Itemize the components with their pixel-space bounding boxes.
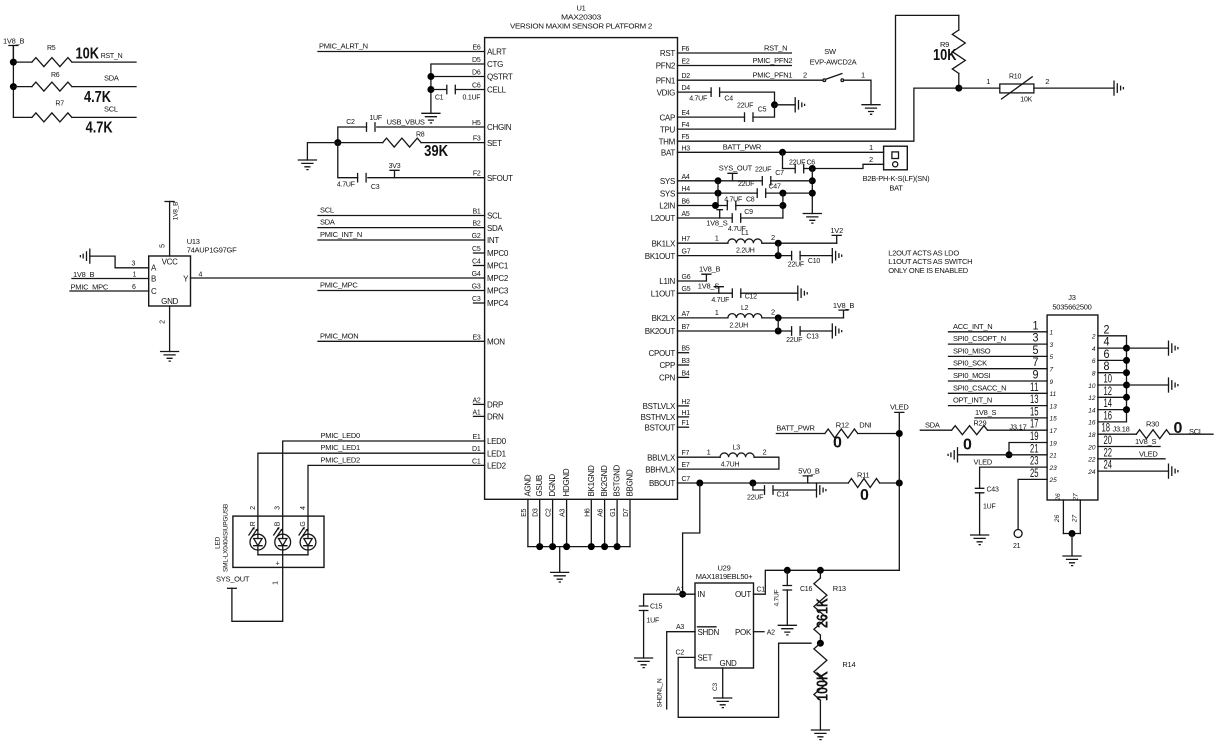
svg-text:6: 6 bbox=[132, 284, 136, 291]
junction bbox=[1069, 530, 1076, 537]
wire J3 pin 21 to ground bbox=[958, 454, 1047, 456]
svg-text:D3: D3 bbox=[533, 508, 540, 517]
wire U29 OUT pin C1 to VLED rail bbox=[754, 570, 900, 594]
svg-text:ACC_INT_N: ACC_INT_N bbox=[953, 322, 992, 331]
junction bbox=[1123, 406, 1130, 413]
svg-text:J3.17: J3.17 bbox=[1009, 423, 1026, 432]
svg-text:PMIC_PFN2: PMIC_PFN2 bbox=[753, 56, 793, 65]
svg-text:SYS_OUT: SYS_OUT bbox=[719, 164, 753, 173]
wire BK2 tie bbox=[777, 318, 779, 331]
svg-text:D2: D2 bbox=[682, 73, 691, 80]
svg-text:EVP-AWCD2A: EVP-AWCD2A bbox=[810, 58, 857, 67]
capacitor C12 4.7UF on L1OUT bbox=[732, 289, 741, 297]
svg-text:SYS_OUT: SYS_OUT bbox=[216, 575, 250, 584]
power flag SYS_OUT bbox=[228, 587, 237, 589]
svg-text:19: 19 bbox=[1050, 440, 1058, 447]
svg-text:BK1OUT: BK1OUT bbox=[645, 252, 676, 261]
wire J3 pin 10 to bus bbox=[1098, 384, 1127, 386]
svg-text:GSUB: GSUB bbox=[535, 475, 544, 496]
svg-text:VERSION MAXIM SENSOR PLATFORM: VERSION MAXIM SENSOR PLATFORM 2 bbox=[510, 22, 652, 31]
svg-text:LED: LED bbox=[215, 536, 222, 549]
wire U29 SET pin C2 feedback bbox=[678, 643, 811, 717]
ground bbox=[817, 483, 826, 497]
svg-text:L2OUT ACTS AS LDO: L2OUT ACTS AS LDO bbox=[888, 249, 959, 258]
svg-text:23: 23 bbox=[1049, 465, 1058, 472]
svg-text:C1: C1 bbox=[435, 95, 444, 102]
svg-text:RST_N: RST_N bbox=[101, 53, 123, 60]
ground bbox=[811, 730, 829, 740]
svg-text:0: 0 bbox=[1174, 420, 1183, 437]
svg-text:G3: G3 bbox=[472, 284, 481, 291]
svg-text:C8: C8 bbox=[746, 196, 755, 203]
thermistor R10 10K bbox=[959, 87, 1000, 89]
svg-text:BAT: BAT bbox=[889, 183, 903, 192]
svg-text:DRN: DRN bbox=[487, 413, 504, 422]
svg-text:3: 3 bbox=[132, 260, 136, 267]
svg-text:24: 24 bbox=[1087, 469, 1096, 476]
svg-text:BK2OUT: BK2OUT bbox=[645, 327, 676, 336]
svg-text:10: 10 bbox=[1088, 383, 1096, 390]
ground bbox=[80, 249, 89, 263]
svg-text:SCL: SCL bbox=[104, 105, 118, 114]
svg-text:20: 20 bbox=[1087, 444, 1096, 451]
svg-text:22: 22 bbox=[1087, 457, 1096, 464]
wire U1 TPU to R9 top bbox=[678, 15, 959, 129]
svg-text:PMIC_PFN1: PMIC_PFN1 bbox=[753, 71, 793, 80]
svg-text:A7: A7 bbox=[682, 311, 690, 318]
svg-text:4.7UF: 4.7UF bbox=[711, 297, 729, 304]
ground bbox=[1169, 378, 1178, 392]
svg-text:1: 1 bbox=[715, 308, 719, 317]
svg-text:F5: F5 bbox=[682, 134, 690, 141]
svg-text:1V2: 1V2 bbox=[830, 226, 843, 235]
svg-text:B1: B1 bbox=[472, 209, 480, 216]
capacitor C10 22UF on BK1OUT bbox=[792, 251, 801, 259]
U1 stub pin BSTLVLX bbox=[678, 405, 689, 407]
svg-text:MPC2: MPC2 bbox=[487, 274, 509, 283]
svg-text:PMIC_ALRT_N: PMIC_ALRT_N bbox=[319, 42, 368, 51]
svg-text:22UF: 22UF bbox=[737, 103, 753, 110]
svg-text:L2OUT: L2OUT bbox=[651, 214, 676, 223]
ground bbox=[1114, 81, 1123, 95]
wire U1 THM to R9/R10 node bbox=[678, 88, 959, 141]
svg-text:4: 4 bbox=[199, 272, 203, 279]
svg-text:SPI0_CSOPT_N: SPI0_CSOPT_N bbox=[953, 334, 1006, 343]
svg-text:10K: 10K bbox=[1020, 97, 1032, 104]
svg-text:SPI0_SCK: SPI0_SCK bbox=[953, 359, 987, 368]
svg-text:C2: C2 bbox=[546, 508, 553, 517]
junction bbox=[779, 190, 786, 197]
svg-text:H6: H6 bbox=[584, 508, 591, 517]
svg-text:IN: IN bbox=[698, 590, 706, 599]
svg-text:J3: J3 bbox=[1068, 293, 1076, 302]
svg-text:B7: B7 bbox=[682, 324, 690, 331]
svg-text:C2: C2 bbox=[346, 119, 355, 126]
svg-text:1: 1 bbox=[986, 77, 990, 86]
resistor R8 39K on SET bbox=[338, 142, 383, 144]
svg-text:2: 2 bbox=[869, 155, 873, 164]
connector J2 B2B-PH-K-S battery bbox=[884, 146, 908, 170]
svg-text:ALRT: ALRT bbox=[487, 48, 507, 57]
svg-text:B6: B6 bbox=[682, 199, 690, 206]
svg-text:5V0_B: 5V0_B bbox=[798, 467, 820, 476]
svg-text:POK: POK bbox=[735, 628, 752, 637]
svg-text:D1: D1 bbox=[472, 446, 481, 453]
svg-text:MON: MON bbox=[487, 338, 505, 347]
capacitor C15 1UF on U29 IN bbox=[643, 594, 645, 606]
wire 1V8_B rail bbox=[12, 46, 14, 118]
wire J3 pin 25 to testpoint 21 bbox=[1018, 479, 1047, 529]
svg-text:C7: C7 bbox=[682, 476, 691, 483]
junction bbox=[896, 430, 903, 437]
power flag 3V3 on SFOUT bbox=[390, 170, 399, 177]
junction bbox=[779, 149, 786, 156]
svg-text:BSTGND: BSTGND bbox=[613, 464, 622, 496]
svg-text:2: 2 bbox=[1091, 334, 1096, 341]
wire net PMIC_MPC to U1 MPC3 bbox=[318, 290, 485, 292]
wire U29 IN pin A1 bbox=[644, 593, 695, 595]
svg-text:TPU: TPU bbox=[660, 125, 676, 134]
svg-text:A6: A6 bbox=[598, 508, 605, 516]
power flag 1V8_B on L1IN bbox=[678, 280, 707, 282]
svg-text:C1: C1 bbox=[757, 587, 766, 594]
svg-text:C4: C4 bbox=[724, 96, 733, 103]
svg-text:A4: A4 bbox=[682, 174, 690, 181]
svg-text:MAX1819EBL50+: MAX1819EBL50+ bbox=[696, 572, 753, 581]
svg-text:CAP: CAP bbox=[659, 113, 675, 122]
svg-text:VDIG: VDIG bbox=[657, 88, 675, 97]
junction bbox=[549, 543, 556, 550]
U1 stub pin DRP bbox=[474, 403, 485, 405]
svg-text:CHGIN: CHGIN bbox=[487, 123, 512, 132]
svg-text:PFN2: PFN2 bbox=[656, 62, 676, 71]
svg-text:22UF: 22UF bbox=[786, 337, 802, 344]
wire net PMIC_MPC to U13 pin C bbox=[70, 290, 149, 292]
svg-text:G1: G1 bbox=[610, 508, 617, 517]
svg-text:1V8_S: 1V8_S bbox=[698, 282, 720, 291]
svg-text:PMIC_LED0: PMIC_LED0 bbox=[321, 431, 361, 440]
svg-text:25: 25 bbox=[1049, 477, 1058, 484]
svg-text:BSTOUT: BSTOUT bbox=[644, 423, 675, 432]
svg-text:A1: A1 bbox=[472, 409, 480, 416]
junction bbox=[334, 139, 341, 146]
svg-text:1: 1 bbox=[715, 234, 719, 243]
resistor R14 100K bbox=[814, 643, 827, 700]
svg-text:2: 2 bbox=[771, 308, 775, 317]
power flag 5V0_B on BBOUT bbox=[803, 476, 812, 483]
svg-text:C1: C1 bbox=[472, 458, 481, 465]
svg-text:PMIC_MPC: PMIC_MPC bbox=[320, 281, 358, 290]
svg-text:R13: R13 bbox=[833, 584, 846, 593]
wire U1 QSTRT bbox=[431, 76, 485, 78]
capacitor C6 22UF on BATT_PWR bbox=[782, 152, 784, 168]
svg-text:1V8_S: 1V8_S bbox=[975, 408, 997, 417]
resistor R13 261K bbox=[819, 570, 821, 578]
svg-text:R30: R30 bbox=[1146, 420, 1159, 429]
junction bbox=[601, 543, 608, 550]
junction bbox=[696, 480, 703, 487]
U1 stub pin CPN bbox=[678, 376, 689, 378]
svg-text:H4: H4 bbox=[682, 186, 691, 193]
wire net SPI0_MISO to J3 pin 5 bbox=[949, 355, 1048, 357]
svg-text:2.2UH: 2.2UH bbox=[736, 248, 755, 255]
U1 stub pin MPC1 bbox=[474, 265, 485, 267]
wire U1 L1OUT row bbox=[678, 292, 733, 294]
svg-text:A5: A5 bbox=[682, 211, 690, 218]
svg-text:22UF: 22UF bbox=[755, 167, 771, 174]
node SCL bbox=[72, 116, 136, 118]
svg-text:4.7UF: 4.7UF bbox=[689, 96, 707, 103]
wire net PMIC_LED2 to U1 LED2 bbox=[308, 465, 485, 534]
svg-text:14: 14 bbox=[1088, 407, 1096, 414]
svg-text:C4: C4 bbox=[472, 259, 481, 266]
connector J3 5035662500 bbox=[1047, 315, 1098, 500]
svg-text:R12: R12 bbox=[836, 421, 849, 430]
svg-text:C47: C47 bbox=[769, 184, 781, 191]
svg-text:4.7K: 4.7K bbox=[84, 89, 112, 106]
svg-text:PMIC_LED2: PMIC_LED2 bbox=[321, 455, 361, 464]
svg-text:C13: C13 bbox=[806, 334, 818, 341]
junction bbox=[679, 591, 686, 598]
ground bbox=[714, 698, 732, 708]
svg-text:SYS: SYS bbox=[660, 177, 675, 186]
svg-text:21: 21 bbox=[1049, 453, 1058, 460]
svg-text:13: 13 bbox=[1050, 403, 1058, 410]
junction bbox=[563, 543, 570, 550]
svg-text:C12: C12 bbox=[745, 294, 757, 301]
wire J3 pin 4 to bus bbox=[1098, 347, 1127, 349]
svg-text:0: 0 bbox=[963, 437, 972, 454]
junction bbox=[817, 640, 824, 647]
wire BBOUT to U29 IN bbox=[683, 483, 700, 594]
svg-text:21: 21 bbox=[1013, 543, 1021, 550]
svg-text:BAT: BAT bbox=[661, 149, 675, 158]
svg-text:BSTLVLX: BSTLVLX bbox=[643, 402, 676, 411]
svg-text:C5: C5 bbox=[758, 107, 767, 114]
svg-text:G4: G4 bbox=[472, 271, 481, 278]
wire net SDA to U1 SDA bbox=[318, 227, 485, 229]
junction bbox=[775, 328, 782, 335]
svg-text:A1: A1 bbox=[676, 587, 684, 594]
svg-text:3: 3 bbox=[1050, 342, 1054, 349]
wire net OPT_INT_N to J3 pin 13 bbox=[949, 405, 1048, 407]
svg-text:4: 4 bbox=[300, 506, 307, 510]
svg-text:2: 2 bbox=[763, 448, 767, 457]
ground bbox=[778, 625, 796, 635]
svg-text:B: B bbox=[151, 275, 156, 284]
svg-text:1V8_B: 1V8_B bbox=[3, 37, 25, 46]
svg-text:SPI0_CSACC_N: SPI0_CSACC_N bbox=[953, 383, 1006, 392]
svg-text:8: 8 bbox=[1092, 371, 1096, 378]
svg-text:G6: G6 bbox=[682, 274, 691, 281]
svg-text:CPN: CPN bbox=[659, 374, 676, 383]
inductor L2 2.2UH on BK2LX bbox=[678, 317, 728, 319]
svg-text:7: 7 bbox=[1050, 367, 1054, 374]
junction bbox=[536, 543, 543, 550]
wire connector J2 pin 2 bbox=[812, 164, 883, 168]
svg-text:1V8_B: 1V8_B bbox=[833, 301, 855, 310]
svg-text:GND: GND bbox=[720, 659, 737, 668]
wire net VLED from J3 pin 22 bbox=[1098, 458, 1165, 460]
svg-text:F1: F1 bbox=[682, 420, 690, 427]
power flag SYS_OUT on SYS bbox=[728, 173, 737, 181]
svg-text:2: 2 bbox=[1045, 77, 1049, 86]
ground bbox=[971, 535, 989, 545]
svg-text:BBOUT: BBOUT bbox=[649, 479, 675, 488]
U1 stub pin MPC4 bbox=[474, 302, 485, 304]
wire U13 pin A bbox=[90, 256, 149, 268]
svg-text:D4: D4 bbox=[682, 85, 691, 92]
svg-text:MPC0: MPC0 bbox=[487, 249, 509, 258]
svg-text:G: G bbox=[300, 521, 307, 526]
junction bbox=[1123, 369, 1130, 376]
svg-text:2: 2 bbox=[250, 506, 257, 510]
capacitor C9 4.7UF on L2OUT bbox=[732, 214, 741, 222]
svg-text:BATT_PWR: BATT_PWR bbox=[776, 424, 815, 433]
svg-text:R6: R6 bbox=[51, 72, 60, 79]
svg-text:J3.18: J3.18 bbox=[1113, 425, 1130, 434]
resistor R6 bbox=[13, 86, 32, 88]
svg-text:THM: THM bbox=[659, 137, 676, 146]
svg-text:H5: H5 bbox=[472, 120, 481, 127]
IC U13 74AUP1G97GF bbox=[149, 256, 191, 306]
svg-text:SYS: SYS bbox=[660, 189, 675, 198]
svg-text:L2: L2 bbox=[741, 305, 749, 312]
U1 stub pin DRN bbox=[474, 415, 485, 417]
svg-text:SW: SW bbox=[824, 47, 837, 56]
svg-text:3: 3 bbox=[275, 506, 282, 510]
svg-text:LED2: LED2 bbox=[487, 462, 507, 471]
capacitor C47 22UF on SYS bbox=[757, 189, 766, 197]
svg-text:SFOUT: SFOUT bbox=[487, 174, 513, 183]
svg-text:A2: A2 bbox=[472, 397, 480, 404]
svg-text:100K: 100K bbox=[815, 670, 832, 701]
svg-text:1: 1 bbox=[1050, 330, 1054, 337]
svg-text:4.7K: 4.7K bbox=[86, 120, 114, 137]
svg-text:SDA: SDA bbox=[104, 74, 119, 83]
svg-text:R5: R5 bbox=[47, 45, 56, 52]
svg-text:DGND: DGND bbox=[548, 474, 557, 497]
ground bbox=[775, 104, 796, 106]
svg-text:F3: F3 bbox=[473, 136, 481, 143]
svg-text:SCL: SCL bbox=[320, 206, 334, 215]
svg-text:MAX20303: MAX20303 bbox=[561, 13, 601, 22]
svg-text:RST_N: RST_N bbox=[764, 44, 787, 53]
capacitor C3 4.7UF on SFOUT bbox=[368, 177, 485, 179]
svg-text:SCL: SCL bbox=[1189, 427, 1203, 436]
wire net RST_N from U1 RST bbox=[678, 52, 792, 54]
capacitor C7 22UF on SYS bbox=[762, 177, 771, 185]
svg-text:R14: R14 bbox=[842, 660, 855, 669]
svg-text:22UF: 22UF bbox=[789, 160, 805, 167]
IC U1 MAX20303 bbox=[485, 38, 678, 500]
svg-text:1: 1 bbox=[869, 143, 873, 152]
junction bbox=[1123, 345, 1130, 352]
svg-text:26: 26 bbox=[1055, 493, 1062, 502]
junction bbox=[809, 165, 816, 172]
junction bbox=[779, 202, 786, 209]
capacitor C16 4.7UF bbox=[786, 570, 788, 585]
svg-text:CPOUT: CPOUT bbox=[648, 349, 675, 358]
svg-text:D7: D7 bbox=[623, 508, 630, 517]
svg-text:C10: C10 bbox=[808, 258, 820, 265]
svg-text:HDGND: HDGND bbox=[562, 468, 571, 496]
svg-text:22UF: 22UF bbox=[788, 262, 804, 269]
svg-text:5: 5 bbox=[160, 244, 167, 248]
svg-text:4: 4 bbox=[1092, 346, 1096, 353]
svg-text:10K: 10K bbox=[76, 46, 100, 63]
ground bbox=[1169, 341, 1178, 355]
svg-text:R7: R7 bbox=[55, 101, 64, 108]
svg-text:F6: F6 bbox=[682, 46, 690, 53]
svg-text:BBHVLX: BBHVLX bbox=[645, 465, 676, 474]
junction bbox=[715, 190, 722, 197]
svg-text:BATT_PWR: BATT_PWR bbox=[723, 143, 762, 152]
svg-text:VLED: VLED bbox=[890, 403, 909, 412]
wire J3 pin 24 to ground bbox=[1098, 470, 1169, 472]
svg-text:B3: B3 bbox=[682, 358, 690, 365]
svg-text:CPP: CPP bbox=[659, 361, 675, 370]
svg-text:PFN1: PFN1 bbox=[656, 76, 676, 85]
svg-text:BSTHVLX: BSTHVLX bbox=[641, 413, 676, 422]
svg-text:5: 5 bbox=[1050, 354, 1054, 361]
wire net PMIC_MON to U1 MON bbox=[318, 340, 485, 342]
svg-text:BBLVLX: BBLVLX bbox=[647, 453, 676, 462]
svg-text:A3: A3 bbox=[560, 508, 567, 516]
capacitor C1 0.1UF on CELL bbox=[431, 89, 447, 91]
wire C8/C9 tie bbox=[782, 193, 784, 218]
resistor R5 bbox=[13, 61, 32, 63]
svg-text:261K: 261K bbox=[815, 597, 832, 628]
svg-text:4.7UH: 4.7UH bbox=[721, 462, 740, 469]
wire net SDA to R29 bbox=[920, 429, 951, 431]
capacitor C5 22UF on CAP bbox=[678, 116, 745, 118]
wire net PMIC_ALRT_N to U1 ALRT bbox=[318, 51, 485, 53]
power flag 1V8_B bbox=[839, 310, 848, 318]
capacitor C13 22UF on BK2OUT bbox=[792, 327, 801, 335]
svg-text:C3: C3 bbox=[712, 682, 719, 690]
svg-text:15: 15 bbox=[1050, 416, 1058, 423]
junction bbox=[809, 190, 816, 197]
svg-text:MPC4: MPC4 bbox=[487, 299, 509, 308]
svg-text:C43: C43 bbox=[987, 487, 999, 494]
capacitor C43 1UF bbox=[975, 488, 983, 493]
LED D1 SML-LX0404SIUPGUSB (RGB LED) bbox=[233, 516, 324, 567]
power flag 1V8_S on L1OUT bbox=[714, 287, 723, 294]
ground bbox=[422, 113, 440, 123]
junction bbox=[712, 202, 719, 209]
resistor R9 10K bbox=[958, 15, 960, 30]
junction bbox=[775, 252, 782, 259]
svg-text:G2: G2 bbox=[472, 233, 481, 240]
svg-text:E6: E6 bbox=[472, 45, 480, 52]
wire U29 SHDN pin A3 net SHDNL_N bbox=[667, 632, 695, 709]
svg-text:1V8_S: 1V8_S bbox=[706, 219, 728, 228]
svg-text:E4: E4 bbox=[682, 110, 690, 117]
svg-text:D6: D6 bbox=[472, 70, 481, 77]
svg-text:26: 26 bbox=[1054, 515, 1061, 524]
ground bbox=[862, 105, 880, 115]
IC U29 MAX1819EBL50+ bbox=[695, 583, 754, 668]
wire net PMIC_INT_N to U1 INT bbox=[318, 239, 485, 241]
svg-text:U1: U1 bbox=[576, 4, 585, 13]
ground bbox=[832, 249, 841, 263]
wire U1 BBOUT row bbox=[678, 482, 849, 484]
wire net BATT_PWR from U1 BAT to connector J2 pin 1 bbox=[678, 151, 884, 153]
svg-text:0.1UF: 0.1UF bbox=[463, 95, 481, 102]
svg-text:H7: H7 bbox=[682, 236, 691, 243]
wire bbox=[1071, 534, 1073, 557]
